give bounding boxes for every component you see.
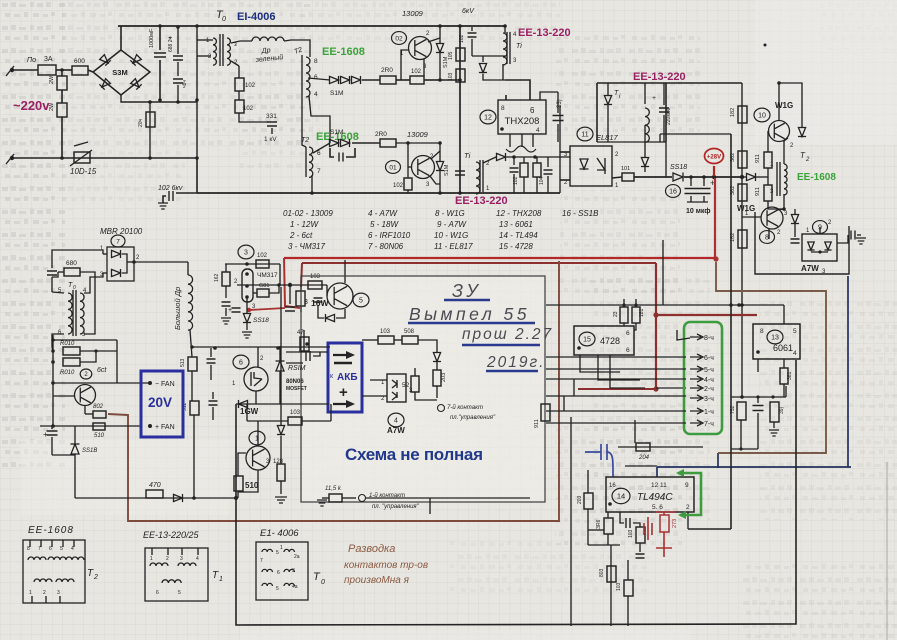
svg-text:1: 1 xyxy=(29,590,32,596)
svg-text:911: 911 xyxy=(755,187,761,196)
svg-text:+: + xyxy=(228,307,232,314)
svg-text:103: 103 xyxy=(616,582,622,591)
svg-text:23: 23 xyxy=(613,311,619,317)
svg-text:5 - 18W: 5 - 18W xyxy=(370,220,399,229)
svg-text:11 - ЕL817: 11 - ЕL817 xyxy=(434,242,473,251)
svg-text:7: 7 xyxy=(116,238,120,245)
svg-text:6: 6 xyxy=(239,359,243,366)
svg-text:102 6кv: 102 6кv xyxy=(158,185,183,192)
svg-text:13 - 6061: 13 - 6061 xyxy=(499,220,533,229)
svg-text:15: 15 xyxy=(583,336,591,343)
svg-text:4: 4 xyxy=(394,417,398,424)
svg-text:02: 02 xyxy=(395,35,403,42)
svg-text:2: 2 xyxy=(166,556,169,562)
svg-text:4: 4 xyxy=(793,350,797,357)
svg-text:3 - ЧМ317: 3 - ЧМ317 xyxy=(288,242,326,251)
svg-text:508: 508 xyxy=(404,329,415,335)
svg-text:203: 203 xyxy=(441,373,447,382)
svg-text:5: 5 xyxy=(793,328,797,335)
svg-text:2: 2 xyxy=(686,504,690,511)
svg-text:20V: 20V xyxy=(148,395,172,410)
svg-text:11: 11 xyxy=(581,131,588,138)
svg-text:16 - SS1В: 16 - SS1В xyxy=(562,209,599,218)
svg-text:47: 47 xyxy=(297,330,304,336)
svg-text:+ FAN: + FAN xyxy=(155,424,175,431)
svg-text:2: 2 xyxy=(43,590,46,596)
svg-text:1GW: 1GW xyxy=(240,407,259,416)
svg-text:2W: 2W xyxy=(49,75,55,84)
svg-text:14 - TL494: 14 - TL494 xyxy=(499,231,538,240)
svg-text:EE-13-220: EE-13-220 xyxy=(455,195,508,207)
svg-text:MBR 20100: MBR 20100 xyxy=(100,227,143,236)
svg-text:11,5 k: 11,5 k xyxy=(325,486,342,492)
svg-text:0: 0 xyxy=(321,579,325,586)
svg-text:20ч: 20ч xyxy=(138,118,144,127)
svg-text:6: 6 xyxy=(314,74,318,81)
svg-text:A7W: A7W xyxy=(801,264,819,273)
svg-text:680: 680 xyxy=(66,260,77,267)
svg-text:2W: 2W xyxy=(49,102,55,111)
svg-text:пл. "управления": пл. "управления" xyxy=(372,504,420,510)
svg-text:+: + xyxy=(43,430,48,439)
svg-text:~220v: ~220v xyxy=(13,98,50,113)
svg-text:911: 911 xyxy=(534,419,540,428)
svg-text:S1M: S1M xyxy=(444,164,450,176)
svg-text:01-02 - 13009: 01-02 - 13009 xyxy=(283,209,333,218)
svg-text:10 мкф: 10 мкф xyxy=(686,208,710,215)
svg-text:381: 381 xyxy=(787,371,793,380)
svg-text:102: 102 xyxy=(411,69,422,75)
svg-text:S1M: S1M xyxy=(330,90,343,97)
svg-text:произвоМна я: произвоМна я xyxy=(344,575,410,586)
svg-text:102: 102 xyxy=(243,106,254,112)
svg-text:4: 4 xyxy=(71,546,74,552)
svg-text:W1G: W1G xyxy=(775,101,793,110)
svg-text:510: 510 xyxy=(245,481,259,490)
svg-text:контактов тр-ов: контактов тр-ов xyxy=(344,560,428,571)
svg-text:Др: Др xyxy=(260,47,271,55)
svg-text:7-ч: 7-ч xyxy=(704,421,714,428)
svg-text:ТНХ208: ТНХ208 xyxy=(505,116,540,127)
svg-text:103: 103 xyxy=(310,274,321,280)
svg-text:1: 1 xyxy=(280,545,283,551)
svg-text:3: 3 xyxy=(57,590,60,596)
svg-text:S3M: S3M xyxy=(112,68,127,77)
svg-text:2R0: 2R0 xyxy=(375,131,387,138)
svg-text:9: 9 xyxy=(685,482,689,489)
svg-text:80N06: 80N06 xyxy=(286,379,304,385)
svg-text:3А: 3А xyxy=(44,56,53,63)
svg-text:7 - 80N06: 7 - 80N06 xyxy=(368,242,404,251)
svg-text:ЕЕ-1608: ЕЕ-1608 xyxy=(28,525,74,536)
svg-text:16: 16 xyxy=(669,188,677,195)
svg-text:1: 1 xyxy=(150,556,153,562)
svg-text:R010: R010 xyxy=(60,370,75,376)
svg-text:4: 4 xyxy=(196,556,199,562)
svg-text:103: 103 xyxy=(628,529,634,538)
svg-text:Т: Т xyxy=(87,568,94,579)
svg-text:2 - 6сt: 2 - 6сt xyxy=(289,231,313,240)
svg-text:6: 6 xyxy=(156,590,159,596)
svg-text:ЧМ317: ЧМ317 xyxy=(257,272,278,279)
svg-text:EE-13-220: EE-13-220 xyxy=(518,27,571,39)
svg-text:G81: G81 xyxy=(259,283,269,289)
svg-text:6: 6 xyxy=(49,546,52,552)
svg-text:SS18: SS18 xyxy=(253,317,269,324)
svg-text:ТL494С: ТL494С xyxy=(637,492,673,503)
svg-text:220мкФ: 220мкФ xyxy=(666,107,672,125)
svg-text:103: 103 xyxy=(290,410,301,416)
svg-text:103: 103 xyxy=(380,329,391,335)
svg-text:SS1В: SS1В xyxy=(82,448,97,454)
svg-text:7: 7 xyxy=(38,546,41,552)
svg-text:прош 2.27: прош 2.27 xyxy=(462,326,553,343)
svg-text:2: 2 xyxy=(93,574,98,581)
svg-text:6-ч: 6-ч xyxy=(704,355,714,362)
svg-text:Т: Т xyxy=(212,570,219,581)
svg-text:102: 102 xyxy=(245,83,256,89)
svg-text:3: 3 xyxy=(244,249,248,256)
svg-text:1 кV: 1 кV xyxy=(264,136,277,143)
svg-text:MOSFET: MOSFET xyxy=(286,386,307,392)
svg-text:12: 12 xyxy=(484,114,492,121)
svg-text:2019г.: 2019г. xyxy=(486,354,545,371)
svg-text:ч8ч: ч8ч xyxy=(182,80,188,88)
svg-text:688 2ч: 688 2ч xyxy=(168,36,174,52)
svg-text:911: 911 xyxy=(755,154,761,163)
svg-text:8-ч: 8-ч xyxy=(704,335,714,342)
svg-text:8: 8 xyxy=(314,58,318,65)
svg-text:13: 13 xyxy=(771,334,779,341)
svg-text:103: 103 xyxy=(448,72,454,81)
svg-text:8: 8 xyxy=(27,546,30,552)
svg-text:204: 204 xyxy=(638,455,650,461)
svg-text:Схема не полная: Схема не полная xyxy=(345,445,483,464)
svg-text:600: 600 xyxy=(74,58,85,65)
svg-text:6: 6 xyxy=(277,570,280,576)
svg-text:SS18: SS18 xyxy=(670,164,687,171)
svg-text:7: 7 xyxy=(260,558,263,564)
svg-text:EL817: EL817 xyxy=(596,133,619,142)
svg-text:13009: 13009 xyxy=(407,130,429,139)
svg-text:A7W: A7W xyxy=(387,426,405,435)
svg-text:+28V: +28V xyxy=(707,155,721,161)
svg-text:5: 5 xyxy=(178,590,181,596)
svg-text:АКБ: АКБ xyxy=(337,372,358,383)
svg-text:3: 3 xyxy=(180,556,183,562)
svg-text:− FAN: − FAN xyxy=(155,381,175,388)
svg-text:R010: R010 xyxy=(60,341,75,347)
svg-text:5. 6: 5. 6 xyxy=(652,504,663,511)
svg-text:8 - W1G: 8 - W1G xyxy=(435,209,465,218)
svg-text:ЗУ: ЗУ xyxy=(452,281,482,301)
svg-text:39): 39) xyxy=(779,406,785,414)
svg-text:2: 2 xyxy=(805,157,810,163)
svg-text:S1M: S1M xyxy=(330,129,343,136)
svg-text:12 11: 12 11 xyxy=(651,482,667,489)
svg-text:13009: 13009 xyxy=(402,9,424,18)
svg-text:0: 0 xyxy=(222,16,226,23)
svg-text:331: 331 xyxy=(266,113,277,120)
svg-text:3: 3 xyxy=(304,299,308,306)
svg-text:10D-15: 10D-15 xyxy=(70,167,97,176)
svg-text:Вымпел 55: Вымпел 55 xyxy=(409,304,530,324)
svg-text:1: 1 xyxy=(219,576,223,583)
svg-text:182: 182 xyxy=(730,108,736,117)
svg-text:12 - ТНХ208: 12 - ТНХ208 xyxy=(496,209,542,218)
svg-text:6кV: 6кV xyxy=(462,8,475,15)
svg-text:5: 5 xyxy=(276,550,279,556)
svg-text:EE-1608: EE-1608 xyxy=(797,172,836,183)
svg-text:3-ч: 3-ч xyxy=(704,396,714,403)
svg-text:6061: 6061 xyxy=(773,343,793,353)
svg-text:4-ч: 4-ч xyxy=(704,377,714,384)
svg-text:По: По xyxy=(27,57,36,64)
svg-text:513: 513 xyxy=(180,358,186,367)
svg-text:104: 104 xyxy=(539,176,545,185)
svg-text:7-й контакт: 7-й контакт xyxy=(447,404,483,411)
svg-text:181: 181 xyxy=(639,308,645,317)
svg-text:4: 4 xyxy=(536,127,540,134)
svg-text:2а: 2а xyxy=(294,554,300,560)
svg-text:14: 14 xyxy=(617,492,625,501)
svg-text:Тi: Тi xyxy=(516,43,522,50)
svg-text:Разводка: Разводка xyxy=(348,543,395,555)
svg-text:16: 16 xyxy=(609,483,616,489)
svg-text:Е1- 4006: Е1- 4006 xyxy=(260,528,299,539)
svg-text:Большой Др: Большой Др xyxy=(173,287,182,330)
svg-text:6: 6 xyxy=(530,106,535,115)
svg-text:6: 6 xyxy=(626,347,630,354)
svg-text:6сt: 6сt xyxy=(97,367,107,374)
svg-text:+: + xyxy=(339,384,348,401)
svg-text:9 - А7W: 9 - А7W xyxy=(437,220,467,229)
svg-text:01: 01 xyxy=(389,164,397,171)
svg-text:10: 10 xyxy=(758,112,766,119)
svg-text:102: 102 xyxy=(257,253,268,259)
svg-text:6 - IRF1010: 6 - IRF1010 xyxy=(368,231,411,240)
svg-text:470: 470 xyxy=(149,482,161,489)
svg-text:EE-13-220: EE-13-220 xyxy=(633,71,686,83)
svg-text:8: 8 xyxy=(501,105,505,112)
svg-text:4а: 4а xyxy=(292,584,298,590)
svg-text:5: 5 xyxy=(60,546,63,552)
svg-text:203: 203 xyxy=(577,495,583,504)
svg-text:8: 8 xyxy=(760,328,764,335)
svg-text:10 - W1G: 10 - W1G xyxy=(434,231,468,240)
svg-text:ЗR6: ЗR6 xyxy=(596,519,602,529)
svg-text:Тi: Тi xyxy=(464,151,471,160)
svg-text:EI-4006: EI-4006 xyxy=(237,11,276,23)
svg-text:6: 6 xyxy=(626,330,630,337)
svg-text:2R0: 2R0 xyxy=(381,67,393,74)
svg-text:5: 5 xyxy=(359,297,363,304)
svg-text:752: 752 xyxy=(730,405,736,414)
svg-text:1-ч: 1-ч xyxy=(704,409,714,416)
svg-text:162: 162 xyxy=(214,273,220,282)
svg-text:RSIM: RSIM xyxy=(288,365,306,372)
svg-text:1 - 12W: 1 - 12W xyxy=(290,220,319,229)
svg-text:2-ч: 2-ч xyxy=(704,386,714,393)
svg-text:EE-1608: EE-1608 xyxy=(322,46,365,58)
svg-text:273: 273 xyxy=(672,519,678,528)
svg-text:5: 5 xyxy=(276,586,279,592)
svg-text:15 - 4728: 15 - 4728 xyxy=(499,242,533,251)
svg-text:102: 102 xyxy=(393,183,404,189)
svg-text:803: 803 xyxy=(599,568,605,577)
svg-text:101: 101 xyxy=(621,166,630,172)
svg-text:ЕЕ-13-220/25: ЕЕ-13-220/25 xyxy=(143,530,200,540)
svg-text:+: + xyxy=(652,95,656,102)
svg-text:16W: 16W xyxy=(311,298,329,308)
svg-text:802: 802 xyxy=(93,404,104,410)
svg-text:1000мF: 1000мF xyxy=(149,28,155,48)
svg-text:7: 7 xyxy=(317,168,321,175)
svg-text:4728: 4728 xyxy=(600,336,620,346)
svg-text:5-ч: 5-ч xyxy=(704,367,714,374)
svg-text:3: 3 xyxy=(292,568,295,574)
svg-text:102: 102 xyxy=(459,34,465,43)
svg-text:102: 102 xyxy=(513,176,519,185)
svg-text:105: 105 xyxy=(448,51,454,60)
svg-text:пл."управления": пл."управления" xyxy=(450,415,496,421)
svg-text:4: 4 xyxy=(314,91,318,98)
svg-text:510: 510 xyxy=(94,433,105,439)
svg-text:4 - А7W: 4 - А7W xyxy=(368,209,398,218)
